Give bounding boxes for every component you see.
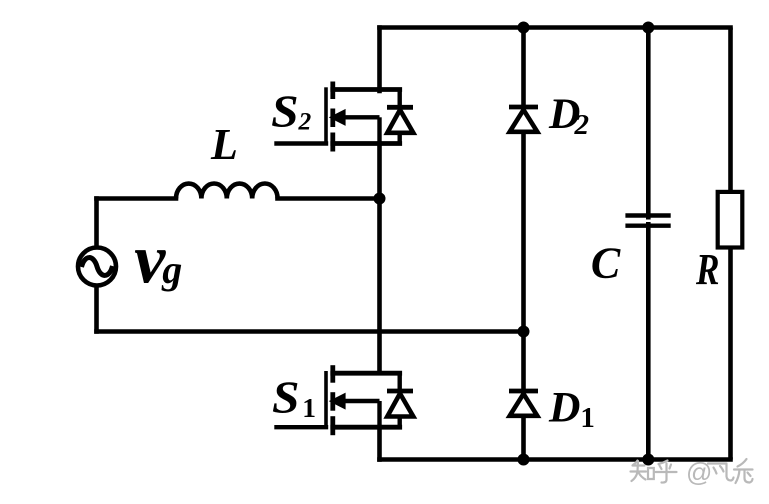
wire inductor right lead: [278, 196, 380, 201]
svg-text:R: R: [695, 244, 719, 294]
watermark Zhihu @feilong: [631, 457, 753, 487]
resistor R branch upper wire: [728, 28, 733, 193]
svg-text:2: 2: [574, 109, 590, 141]
svg-text:L: L: [210, 120, 238, 169]
node bottom junction C dot: [642, 454, 654, 466]
svg-text:S: S: [272, 371, 300, 422]
label S2: [271, 85, 311, 136]
svg-text:2: 2: [298, 106, 312, 135]
S2 body diode triangle: [387, 110, 413, 133]
S2 source arrow line: [340, 115, 380, 119]
wire vg bottom lead: [94, 285, 99, 332]
S1 drain bar: [333, 371, 400, 376]
svg-text:C: C: [591, 239, 621, 288]
node top junction C dot: [642, 22, 654, 34]
hanzi hu: [656, 461, 677, 483]
wire S1 source to bottom rail: [377, 427, 382, 459]
S2 drain bar: [333, 87, 400, 92]
svg-text:S: S: [271, 85, 299, 136]
S1 source bar: [333, 425, 400, 430]
S2 source arrow vertical: [377, 117, 381, 143]
wire S2 source to S1 drain (crosses middle rail, no connection): [377, 144, 382, 374]
capacitor C branch upper wire: [646, 28, 651, 220]
resistor R body: [718, 192, 743, 248]
transistor S2: [277, 82, 414, 152]
S2 body-diode branch vertical: [398, 90, 402, 144]
node top junction D2 dot: [518, 22, 530, 34]
label R: [695, 244, 719, 294]
wire top rail: [380, 25, 731, 30]
diode D2: [509, 107, 538, 132]
wire inductor left lead: [97, 196, 177, 201]
inductor L: [176, 183, 278, 198]
node bottom junction D1 dot: [518, 454, 530, 466]
svg-text:1: 1: [302, 392, 316, 423]
node A junction dot inductor / S-leg: [374, 193, 386, 205]
S2 channel segments: [330, 82, 335, 100]
hanzi zhi (left: shi radical): [631, 461, 647, 482]
resistor R branch lower wire: [728, 248, 733, 460]
diode D1: [509, 391, 538, 416]
capacitor C branch lower wire: [646, 222, 651, 460]
AC source vg: [78, 248, 116, 286]
label D2: [548, 90, 589, 141]
svg-text:1: 1: [580, 402, 595, 434]
S1 channel segments: [330, 365, 335, 383]
S2 body diode cathode bar: [387, 105, 413, 110]
node middle junction dot: [518, 326, 530, 338]
wire bottom rail: [380, 457, 731, 462]
S2 gate bar: [324, 87, 328, 145]
S2 gate lead: [277, 141, 327, 145]
label C: [591, 239, 621, 288]
S2 source bar: [333, 141, 400, 146]
S1 body-diode branch vertical: [398, 373, 402, 427]
S1 source arrow line: [340, 399, 380, 403]
transistor S1: [277, 365, 414, 435]
wire middle rail from vg to D leg: [97, 329, 524, 334]
S1 source arrow vertical: [377, 401, 381, 427]
label L: [210, 120, 238, 169]
S1 gate lead: [277, 425, 327, 429]
hanzi fei: [708, 464, 734, 481]
svg-text:D: D: [548, 383, 580, 431]
wire S-leg drain of S2 to top rail: [377, 28, 382, 92]
S1 gate bar: [324, 371, 328, 429]
svg-text:g: g: [161, 247, 182, 292]
S1 body diode triangle: [387, 394, 413, 417]
label vg: [134, 222, 182, 299]
wire vg top lead: [94, 199, 99, 249]
hanzi long: [734, 459, 753, 483]
S2 arrowhead: [329, 109, 346, 126]
S1 arrowhead: [329, 393, 346, 410]
diode D2 branch wire: [521, 28, 526, 460]
svg-text:@: @: [686, 457, 712, 487]
capacitor C plates: [625, 216, 670, 226]
label D1: [548, 383, 595, 434]
label S1: [272, 371, 316, 422]
hanzi zhi (right: kou box): [648, 468, 654, 479]
S1 body diode cathode bar: [387, 389, 413, 394]
